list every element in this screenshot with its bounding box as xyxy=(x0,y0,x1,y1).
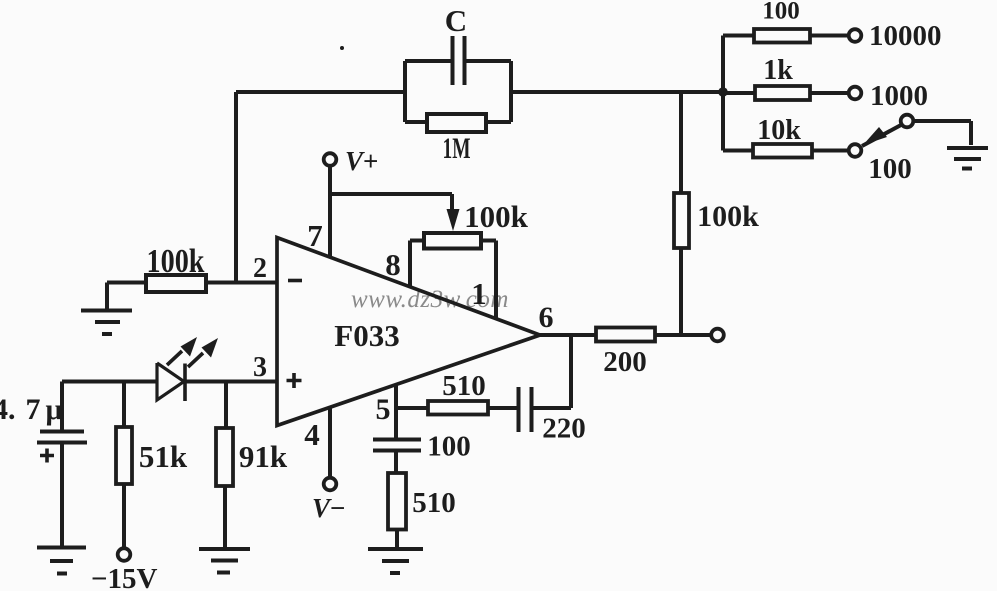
svg-text:1k: 1k xyxy=(763,55,793,86)
svg-text:7: 7 xyxy=(307,218,323,253)
svg-text:C: C xyxy=(445,3,467,38)
svg-text:100k: 100k xyxy=(464,199,529,234)
svg-text:91k: 91k xyxy=(239,439,288,474)
svg-text:F033: F033 xyxy=(334,318,399,353)
svg-text:510: 510 xyxy=(442,370,486,402)
svg-text:8: 8 xyxy=(385,247,401,282)
svg-text:1M: 1M xyxy=(443,132,471,165)
svg-text:200: 200 xyxy=(603,346,647,378)
svg-text:100k: 100k xyxy=(147,243,205,280)
svg-text:100: 100 xyxy=(762,0,800,25)
svg-text:51k: 51k xyxy=(139,439,188,474)
svg-text:5: 5 xyxy=(376,393,391,426)
svg-text:100: 100 xyxy=(868,153,912,185)
svg-text:100: 100 xyxy=(427,431,471,463)
svg-text:510: 510 xyxy=(412,487,456,519)
svg-text:4.7μ: 4.7μ xyxy=(0,393,63,426)
svg-text:1000: 1000 xyxy=(870,80,928,112)
svg-text:2: 2 xyxy=(253,253,267,284)
svg-text:10000: 10000 xyxy=(869,20,942,52)
svg-text:−15V: −15V xyxy=(91,563,158,591)
svg-text:V−: V− xyxy=(312,493,345,523)
svg-text:1: 1 xyxy=(471,276,487,311)
svg-text:6: 6 xyxy=(539,301,554,334)
svg-text:100k: 100k xyxy=(697,200,759,233)
svg-text:3: 3 xyxy=(253,352,267,383)
svg-text:10k: 10k xyxy=(757,115,801,146)
svg-text:220: 220 xyxy=(542,413,586,445)
svg-text:4: 4 xyxy=(304,417,320,452)
svg-text:V+: V+ xyxy=(345,146,378,176)
